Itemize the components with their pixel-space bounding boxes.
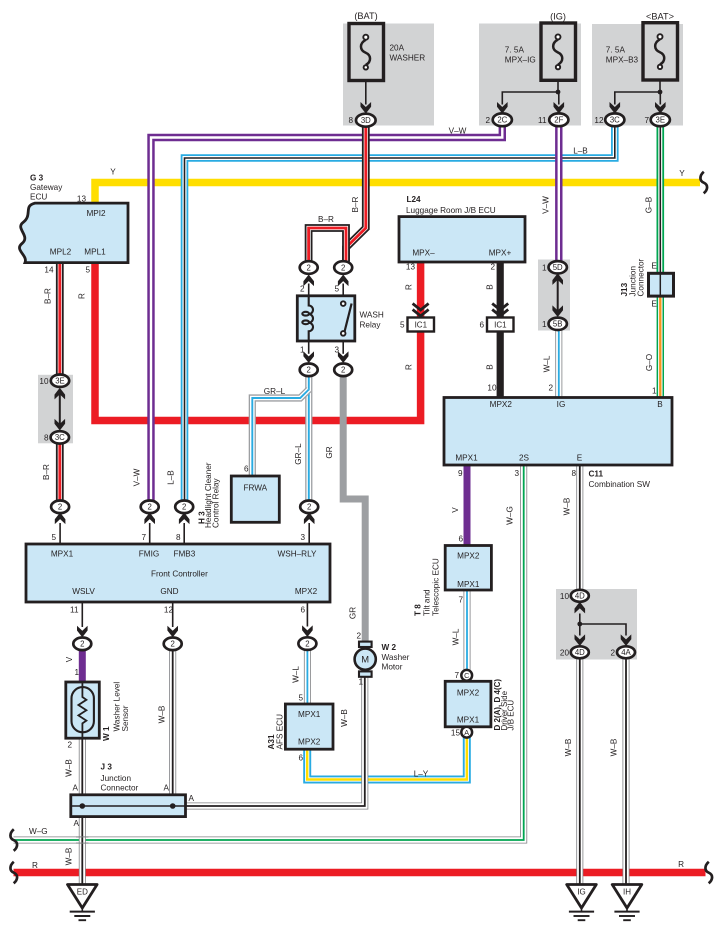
arrow into connector 5D from 5B [552,273,563,285]
svg-text:7: 7 [454,671,459,680]
fuse block shading (IG MPX-IG) [479,24,581,126]
connector 3E [651,113,670,126]
svg-text:6: 6 [458,535,463,544]
svg-text:14: 14 [44,266,54,275]
connector 3C [605,113,624,126]
svg-text:MPL2: MPL2 [50,248,72,257]
wire W-B from front controller GND to junction connector J3 [169,650,176,806]
svg-text:A: A [464,728,469,737]
arrow into connector 4D pin 20 [575,634,586,646]
svg-text:5: 5 [298,694,303,703]
svg-text:8: 8 [44,434,49,443]
lead wash relay coil pin 1 [308,331,310,354]
fuse symbol F1 [361,35,370,70]
fuse F3 7.5A MPX-B3 [643,23,678,80]
svg-text:W–G: W–G [29,827,48,836]
svg-text:2: 2 [356,631,361,640]
wire W-B from combination SW E pin 8 to connector 4D [576,465,583,591]
fuse symbol F2 [553,34,562,69]
svg-text:Motor: Motor [382,662,403,671]
svg-text:7. 5A: 7. 5A [505,46,525,55]
svg-text:E: E [651,262,657,271]
ground ED [68,885,98,921]
lead branch to connector 2C [502,92,558,105]
svg-text:10: 10 [560,592,570,601]
svg-text:W–B: W–B [610,738,619,756]
node J3 left [80,803,86,809]
svg-text:W–L: W–L [543,355,552,372]
wire GR from wash relay pin 3 to washer motor pin 2 [343,376,365,643]
svg-text:V–W: V–W [133,468,142,486]
svg-text:IG: IG [577,888,585,897]
connector 2 front controller WSH-RLY [300,501,318,514]
svg-text:W–B: W–B [563,497,572,515]
fuse F1 20A WASHER [349,24,384,81]
ground IH [612,885,642,921]
svg-text:7: 7 [458,596,463,605]
wire B-R branch to wash relay pin 2 [309,228,346,262]
svg-text:5: 5 [85,266,90,275]
svg-text:B: B [486,284,495,290]
connector 2 front controller MPX1 [51,501,69,514]
svg-text:T 8: T 8 [414,604,423,616]
node between connectors 4D/4A [577,622,582,627]
svg-text:MPX1: MPX1 [51,550,74,559]
svg-text:13: 13 [406,263,416,272]
lead front controller GND pin 12 [172,602,174,627]
svg-text:6: 6 [300,606,305,615]
svg-text:FMB3: FMB3 [173,550,195,559]
lead wash relay coil pin 2 [308,284,310,297]
front controller box [26,544,330,602]
wire GR-L branch to headlight cleaner control relay FRWA [252,390,308,476]
wire W-B from washer level sensor pin 2 to junction connector J3 [79,738,86,807]
driver side J/B ECU D2/D4 box [445,681,491,727]
arrow into connector 3E from 3C [55,388,66,400]
svg-text:5: 5 [51,533,56,542]
svg-text:2: 2 [548,384,553,393]
arrow into connector 4A pin 2 [621,634,632,646]
IC1 box left [408,318,435,332]
lead wash relay switch pin 5 [342,284,344,302]
svg-text:W–L: W–L [452,628,461,645]
arrow into connector 5B from 5D [552,305,563,317]
lead front controller MPX2 pin 6 [306,602,308,627]
connector 3E left [51,375,69,387]
svg-text:Y: Y [110,168,116,177]
svg-text:2: 2 [307,263,311,272]
svg-text:MPX+: MPX+ [489,249,512,258]
svg-text:IC1: IC1 [494,321,507,330]
svg-text:B–R: B–R [351,196,360,212]
lead node to connector 4D pin 20 [579,624,581,636]
svg-text:2: 2 [80,640,84,649]
wash relay H3 box [297,296,355,341]
svg-text:W–L: W–L [292,666,301,683]
connector 2C [493,113,512,126]
connector 5B [549,318,567,330]
wire W-G from combination SW 2S pin 3 to left edge [14,465,524,841]
chevron arrows into IC1 left [413,304,429,317]
svg-text:IG: IG [557,400,566,409]
lead from fuse 20A WASHER to connector 3D [365,81,367,105]
svg-text:5: 5 [334,285,339,294]
arrow into front controller WSH-RLY connector [304,513,315,525]
svg-text:2: 2 [341,366,345,375]
wire G-B from fuse 3E to junction connector J13 [656,126,664,274]
svg-text:L24: L24 [407,195,422,204]
arrow into connector 3C [610,102,621,114]
connector 2 front controller MPX2 [298,637,316,650]
svg-text:1: 1 [300,346,305,355]
svg-text:2: 2 [182,503,186,512]
node in fuse block MPX-B3 [658,90,663,95]
svg-text:12: 12 [594,116,604,125]
svg-text:2: 2 [341,263,345,272]
svg-text:3C: 3C [55,433,65,442]
connector 2 front controller WSLV [73,638,91,651]
svg-text:MPX2: MPX2 [457,552,480,561]
svg-text:Connector: Connector [101,784,139,793]
svg-text:2F: 2F [554,116,563,125]
arrow into connector 2F [554,102,565,114]
svg-text:Y: Y [679,169,685,178]
washer level sensor W1 box [66,682,100,738]
connector 4A pin 2 [617,646,635,658]
svg-text:R: R [78,293,87,299]
wire R from MPL1 pin 5 to luggage room J/B ECU MPX- pin 13 [95,262,421,421]
svg-text:(BAT): (BAT) [354,11,377,21]
wire GR-L from wash relay pin 1 to front controller WSH-RLY [305,376,312,501]
svg-text:MPX2: MPX2 [490,400,513,409]
svg-text:2: 2 [307,503,311,512]
wire V from front controller WSLV to washer level sensor pin 1 [79,650,86,682]
junction link 4D to 4A [580,624,626,636]
svg-text:MPX–IG: MPX–IG [505,56,536,65]
svg-text:2: 2 [300,285,305,294]
lead from fuse MPX-B3 to junction node [659,80,661,92]
svg-text:10: 10 [39,377,49,386]
arrow into connector 3C from 3E [55,419,66,431]
lead to connector 2F [558,92,560,105]
connector 3C left [51,431,69,443]
wire B-R from connector 3C to front controller MPX1 [56,443,64,501]
arrow out of wash relay pin 1 [303,351,314,363]
svg-text:MPI2: MPI2 [86,209,106,218]
wire W-G outline rims over crossing [76,837,89,843]
svg-text:Connector: Connector [637,258,646,296]
lead to connector 3E [659,92,661,105]
svg-text:4D: 4D [575,592,585,601]
lead branch to connector 3C [615,92,660,105]
svg-text:ECU: ECU [30,193,47,202]
connector A driver side J/B [461,727,472,738]
lead front controller FMB3 pin 8 [183,523,185,544]
wire V-W from fuse 2C to front controller FMIG [151,126,502,501]
svg-text:MPX2: MPX2 [295,587,318,596]
svg-text:Telescopic ECU: Telescopic ECU [432,558,441,616]
svg-text:9: 9 [458,469,463,478]
svg-text:A: A [164,784,170,793]
wire G-O from junction connector J13 to combination SW B pin 1 [657,296,664,398]
svg-text:V–W: V–W [449,127,467,136]
svg-text:Sensor: Sensor [121,705,130,731]
svg-text:5D: 5D [553,263,563,272]
combination SW input box [444,398,672,466]
svg-text:1: 1 [74,668,79,677]
svg-text:7: 7 [141,533,146,542]
svg-text:MPX1: MPX1 [457,580,480,589]
arrow out of wash relay pin 3 [338,351,349,363]
svg-text:1: 1 [652,387,657,396]
connector 5D [549,261,567,273]
svg-text:R: R [678,860,684,869]
junction connector J13 box [649,273,674,296]
arrow into wash relay connector pin 5 [338,275,349,287]
connector 4D pin 20 [571,646,589,658]
svg-text:WSH–RLY: WSH–RLY [278,550,318,559]
svg-text:W–B: W–B [340,709,349,727]
lead from fuse MPX-IG to junction node [557,80,559,92]
svg-text:6: 6 [298,754,303,763]
arrow out of front controller WSLV [77,626,88,638]
node in fuse block MPX-IG [556,90,561,95]
svg-text:V–W: V–W [542,196,551,214]
svg-text:B–R: B–R [44,288,53,304]
svg-text:5B: 5B [553,320,563,329]
svg-text:2: 2 [148,503,152,512]
wire B-R from MPL2 pin 14 to connector 3E [56,262,64,375]
tilt and telescopic ECU T8 box [445,546,491,591]
svg-text:Control Relay: Control Relay [211,477,220,528]
arrow into connector 3D [361,102,372,114]
lead front controller WSLV pin 11 [81,602,83,627]
svg-text:L–B: L–B [573,147,588,156]
svg-text:B: B [657,400,663,409]
svg-text:3: 3 [334,346,339,355]
svg-text:A: A [74,819,80,828]
svg-text:15: 15 [451,729,461,738]
svg-text:E: E [577,454,583,463]
break symbol R left [10,862,17,884]
svg-text:3E: 3E [656,116,666,125]
svg-text:J 3: J 3 [101,763,113,772]
svg-text:MPX1: MPX1 [455,454,478,463]
svg-text:MPX1: MPX1 [457,716,480,725]
break symbol Y right [700,172,707,194]
svg-text:Gateway: Gateway [30,183,63,192]
svg-text:GR: GR [325,446,334,458]
svg-text:11: 11 [538,116,547,125]
svg-text:MPX1: MPX1 [298,710,321,719]
lead front controller FMIG pin 7 [149,523,151,544]
wire B from luggage room J/B ECU MPX+ to combination SW MPX2 pin 10 [497,262,504,398]
fuse block shading (BAT MPX-B3) [592,24,683,126]
svg-text:W 1: W 1 [102,726,111,741]
svg-text:1: 1 [542,263,547,272]
wire V from combination SW MPX1 pin 9 to tilt and telescopic ECU [464,465,471,546]
svg-text:A: A [189,794,195,803]
connector 3D [356,114,376,127]
svg-text:6: 6 [479,321,484,330]
break symbol W-G left [10,829,17,851]
gateway ECU G3 box [19,203,128,263]
lead connector 4D to junction node [579,614,581,625]
junction connector J3 box [71,795,186,817]
svg-text:12: 12 [164,606,174,615]
connector 2 front controller FMB3 [175,501,193,514]
connector pass-through arrow line 5D-5B [557,277,559,313]
svg-text:Front Controller: Front Controller [151,570,208,579]
wash relay coil [302,296,313,341]
svg-text:W–B: W–B [65,847,74,865]
svg-text:M: M [361,654,369,665]
svg-text:WSLV: WSLV [72,587,95,596]
svg-text:FRWA: FRWA [243,484,267,493]
svg-text:MPX–B3: MPX–B3 [606,56,639,65]
connector 2F [549,113,568,126]
connector block shading 5D/5B [538,260,570,331]
svg-text:Relay: Relay [360,321,382,330]
svg-text:3: 3 [300,533,305,542]
wire R ground bus along bottom [14,869,706,877]
svg-text:6: 6 [244,465,249,474]
svg-text:IC1: IC1 [415,321,428,330]
svg-text:G–O: G–O [645,354,654,371]
svg-text:MPX2: MPX2 [298,738,321,747]
svg-text:W–G: W–G [506,506,515,525]
arrow into wash relay connector pin 2 [303,275,314,287]
arrow into front controller FMB3 connector [179,513,190,525]
svg-text:Combination SW: Combination SW [589,480,651,489]
svg-text:(IG): (IG) [550,12,566,22]
svg-text:Luggage Room J/B ECU: Luggage Room J/B ECU [406,206,496,215]
svg-text:GR–L: GR–L [294,443,303,465]
headlight cleaner control relay FRWA box [231,476,279,522]
connector 2 wash relay pin 2 top [300,261,318,274]
svg-text:2C: 2C [497,116,507,125]
svg-text:W–B: W–B [564,738,573,756]
svg-text:GR: GR [348,607,357,619]
svg-text:AFS ECU: AFS ECU [276,714,285,750]
washer motor W2 [355,642,376,677]
fuse block shading (BAT 20A WASHER) [343,24,434,126]
svg-text:A: A [73,784,79,793]
svg-text:2: 2 [307,366,311,375]
lead front controller MPX1 pin 5 [59,523,61,544]
wire W-L from connector 5B to combination SW IG pin 2 [555,331,562,398]
connector block shading 4D/4D/4A [556,589,637,660]
connector 2 wash relay pin 3 bottom [334,364,352,377]
svg-text:1: 1 [358,678,363,687]
svg-text:MPX2: MPX2 [457,689,480,698]
svg-text:4D: 4D [575,648,585,657]
svg-text:Tilt and: Tilt and [423,589,432,616]
connector pass-through arrow line 3E-3C [59,391,61,428]
wash relay switch [341,301,352,335]
svg-text:G 3: G 3 [30,174,44,183]
wire W-B from connector 4A pin 2 to ground IH [623,659,630,886]
svg-text:V: V [451,507,460,513]
svg-text:8: 8 [176,533,181,542]
connector block shading 3E/3C [38,375,73,444]
svg-text:MPL1: MPL1 [84,248,106,257]
svg-text:2: 2 [58,503,62,512]
svg-text:8: 8 [348,116,353,125]
connector 4D pin 10 [571,590,589,602]
svg-text:W–B: W–B [65,759,74,777]
ground IG [567,885,597,921]
fuse F2 7.5A MPX-IG [541,23,576,80]
svg-text:GR–L: GR–L [264,387,286,396]
svg-text:20A: 20A [390,44,405,53]
arrow into connector 3E [655,102,666,114]
arrow out of front controller GND [167,626,178,638]
IC1 box right [487,318,514,332]
svg-text:E: E [651,300,657,309]
svg-text:B: B [486,364,495,370]
connector 2 wash relay pin 5 top [334,261,352,274]
svg-text:WASH: WASH [360,311,384,320]
svg-text:C: C [464,671,469,680]
svg-text:G–B: G–B [645,196,654,213]
wire W-L from tilt and telescopic ECU pin 7 to connector C [464,590,471,671]
svg-text:3C: 3C [610,116,620,125]
break symbol R right [705,862,712,884]
svg-text:Washer: Washer [382,653,410,662]
arrow into front controller FMIG connector [144,513,155,525]
svg-text:5: 5 [400,321,405,330]
svg-text:2: 2 [485,116,490,125]
connector 2 front controller FMIG [141,501,159,514]
svg-text:J/B ECU: J/B ECU [507,700,516,731]
svg-text:V: V [65,656,74,662]
svg-text:1: 1 [542,320,547,329]
svg-text:2: 2 [171,640,175,649]
wire Y from gateway ECU pin 13 to right edge [95,183,700,206]
svg-text:2: 2 [610,648,615,657]
svg-text:7: 7 [644,116,649,125]
luggage room J/B ECU L24 box [399,217,525,262]
svg-text:L–B: L–B [167,470,176,485]
svg-text:10: 10 [487,384,497,393]
svg-text:2: 2 [67,741,72,750]
connector 2 wash relay pin 1 bottom [300,364,318,377]
svg-text:20: 20 [560,648,570,657]
svg-text:R: R [405,284,414,290]
wire W-B from junction connector J3 to ground ED [79,817,86,886]
lead front controller WSH-RLY pin 3 [308,523,310,544]
wire L-B from fuse 3C to front controller FMB3 [185,126,615,501]
arrow into connector 2C [497,102,508,114]
svg-text:2: 2 [305,639,309,648]
wire L-Y from AFS ECU pin 6 to driver side J/B ECU pin 15 connector A [307,737,467,780]
svg-text:B–R: B–R [42,464,51,480]
svg-text:W–B: W–B [158,705,167,723]
wire V-W from fuse 2F to connector 5D [555,126,562,262]
svg-text:11: 11 [70,606,79,615]
wire B-R from fuse 3D to wash relay pin 5 [346,128,366,262]
svg-text:8: 8 [571,469,576,478]
AFS ECU A31 box [285,704,333,749]
svg-text:2: 2 [490,263,495,272]
wire W-B from washer motor pin 1 to junction connector J3 [186,676,365,806]
svg-text:2S: 2S [519,454,530,463]
svg-text:C11: C11 [589,470,604,479]
arrow into connector 4D pin 10 [575,602,586,614]
wire W-L from front controller MPX2 to AFS ECU MPX1 pin 5 [304,650,311,704]
arrow out of front controller MPX2 [302,625,313,637]
